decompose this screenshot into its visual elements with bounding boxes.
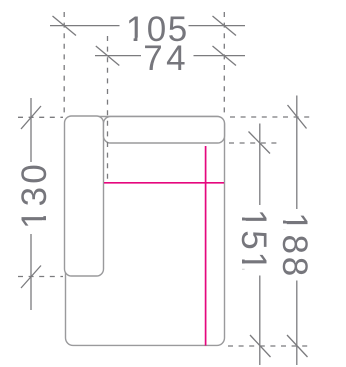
- extension line body bottom right: [228, 345, 312, 347]
- pink seat width line: [104, 182, 224, 184]
- extension line armrest bottom left: [18, 276, 63, 278]
- backrest outline: [104, 117, 225, 144]
- svg-text:130: 130: [15, 161, 54, 229]
- seat body outline: [66, 117, 225, 346]
- svg-text:74: 74: [143, 39, 189, 78]
- extension line armrest top left: [18, 116, 63, 118]
- extension line left edge top: [63, 12, 65, 115]
- svg-text:151: 151: [234, 209, 273, 273]
- extension line right edge top: [223, 12, 225, 114]
- extension line backrest front top: [107, 36, 109, 180]
- dimension line 151: [249, 124, 271, 366]
- dimension line 188: [287, 96, 308, 366]
- extension line backrest bottom right: [229, 142, 279, 144]
- pink seat depth line: [205, 146, 207, 346]
- armrest outline: [65, 116, 104, 276]
- extension line body top right: [230, 116, 311, 118]
- svg-text:188: 188: [275, 212, 314, 279]
- dimension line 130: [21, 98, 41, 310]
- dimension line 74: [95, 46, 245, 66]
- dimension line 105: [50, 16, 245, 36]
